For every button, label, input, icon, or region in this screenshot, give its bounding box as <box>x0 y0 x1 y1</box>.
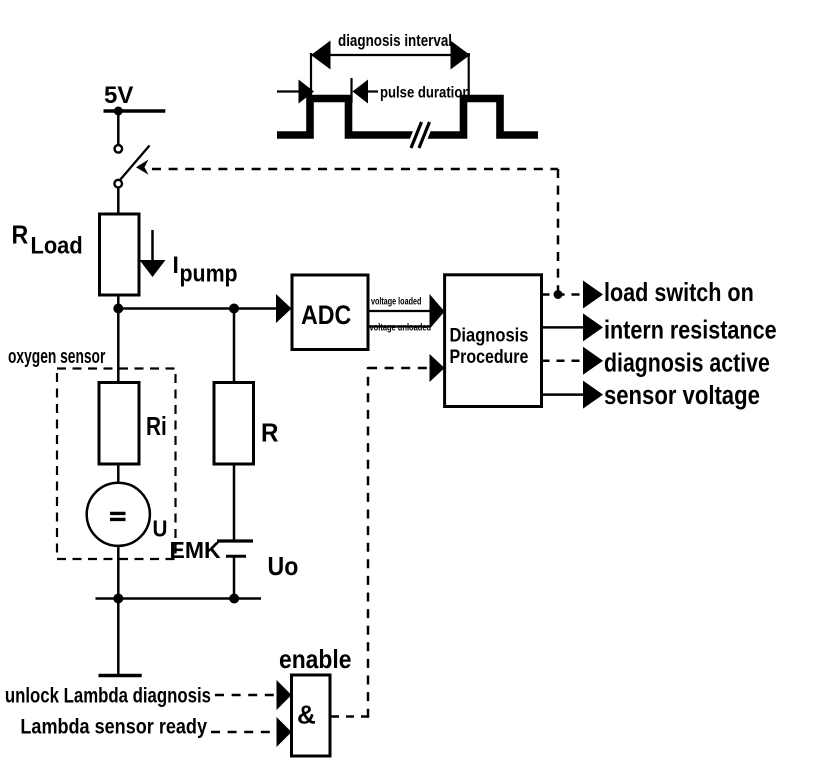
svg-text:voltage loaded: voltage loaded <box>371 295 421 306</box>
arrowhead unlock input <box>277 680 292 710</box>
dashed wire ready input <box>211 731 277 734</box>
arrowhead diagnosis active <box>583 347 603 375</box>
voltage source circle <box>87 483 150 546</box>
dashed control line vertical <box>557 169 560 295</box>
dimension extension line left <box>310 53 312 98</box>
dashed wire enable vertical <box>367 367 370 718</box>
svg-text:Ri: Ri <box>146 412 167 441</box>
svg-text:U: U <box>153 515 168 541</box>
label I_pump <box>173 251 238 286</box>
bottom node wire <box>96 597 262 600</box>
svg-text:Lambda sensor ready: Lambda sensor ready <box>20 715 207 739</box>
Diagnosis Procedure box <box>445 275 542 407</box>
falling edge extension tick <box>350 78 352 103</box>
bottom node dot right <box>229 594 239 604</box>
pulse duration right stub <box>368 90 378 92</box>
label Diagnosis Procedure <box>450 324 529 367</box>
node dot A <box>113 304 123 314</box>
ground <box>99 674 142 677</box>
diagnosis interval right arrowhead <box>451 41 471 70</box>
junction dot at 5V rail <box>114 107 123 116</box>
arrowhead ready input <box>277 717 292 747</box>
wire 5V to switch <box>117 111 120 144</box>
pulse duration left arrowhead <box>299 80 315 104</box>
svg-text:pump: pump <box>180 259 238 286</box>
svg-text:Load: Load <box>31 232 83 259</box>
arrowhead intern resistance <box>583 313 603 341</box>
svg-text:diagnosis interval: diagnosis interval <box>338 32 452 51</box>
resistor Ri <box>99 383 139 465</box>
diagnosis interval left arrowhead <box>311 41 331 70</box>
wire ADC out voltage loaded <box>368 310 430 312</box>
ADC box <box>292 275 368 350</box>
switch contact upper <box>115 145 123 153</box>
svg-text:EMK: EMK <box>170 537 222 563</box>
arrowhead enable into Diagnosis <box>430 354 445 382</box>
svg-text:&: & <box>297 700 316 730</box>
wire R_Load bottom to node <box>117 295 120 383</box>
switch blade <box>120 146 150 181</box>
svg-text:enable: enable <box>279 646 351 675</box>
wire switch to R_Load <box>117 188 120 214</box>
I_pump arrow line <box>151 230 154 262</box>
wire node B to R <box>233 309 236 383</box>
wire ADC out voltage unloaded <box>368 325 430 327</box>
svg-text:load switch on: load switch on <box>604 278 754 307</box>
svg-text:Uo: Uo <box>268 553 299 582</box>
wire node to ADC <box>118 307 276 310</box>
dashed wire diagnosis active <box>542 360 584 363</box>
dashed wire unlock input <box>215 694 277 697</box>
wire sensor voltage <box>542 393 584 396</box>
label U_EMK <box>153 515 222 563</box>
pulse duration left stub <box>277 90 299 92</box>
svg-text:oxygen sensor: oxygen sensor <box>8 344 106 367</box>
switch control arrowhead <box>136 160 149 175</box>
dashed wire enable horizontal <box>368 367 430 370</box>
dashed control line to load switch <box>152 168 558 171</box>
wire waveform trace <box>277 99 538 136</box>
wire R to capacitor <box>233 464 236 540</box>
diagnosis interval dimension line <box>311 54 470 56</box>
resistor R_Load <box>100 214 140 295</box>
I_pump arrowhead <box>140 260 166 277</box>
capacitor Uo top plate <box>217 539 253 542</box>
5V supply rail <box>104 109 166 113</box>
dashed wire enable output <box>331 715 368 718</box>
wire intern resistance <box>542 326 584 329</box>
svg-text:R: R <box>12 221 29 250</box>
wire to ground <box>117 599 120 675</box>
svg-text:I: I <box>173 251 179 278</box>
switch contact lower <box>114 180 122 188</box>
wire Ri to source <box>117 464 120 483</box>
svg-text:ADC: ADC <box>301 300 351 330</box>
junction dot load switch <box>554 290 563 299</box>
label R_Load <box>12 221 83 259</box>
arrow into ADC <box>276 294 292 323</box>
arrow ADC to Diagnosis <box>430 294 445 329</box>
svg-text:Diagnosis: Diagnosis <box>450 324 529 345</box>
node dot B <box>229 304 239 314</box>
svg-text:5V: 5V <box>104 82 133 109</box>
dashed wire load switch on <box>542 293 584 296</box>
svg-text:sensor voltage: sensor voltage <box>604 381 760 410</box>
wire source to bottom node <box>117 546 120 599</box>
arrowhead sensor voltage <box>583 381 603 409</box>
svg-text:diagnosis active: diagnosis active <box>604 348 770 378</box>
svg-text:unlock Lambda diagnosis: unlock Lambda diagnosis <box>5 685 211 708</box>
voltage source = sign <box>110 513 126 519</box>
svg-text:intern resistance: intern resistance <box>604 316 777 345</box>
svg-text:voltage unloaded: voltage unloaded <box>370 321 432 332</box>
svg-text:pulse duration: pulse duration <box>380 84 470 101</box>
oxygen sensor dashed box <box>57 369 176 560</box>
arrowhead load switch on <box>583 281 603 309</box>
resistor R <box>214 383 254 465</box>
pulse duration right arrowhead <box>353 80 369 104</box>
waveform break symbol <box>411 122 430 148</box>
svg-text:R: R <box>261 419 278 448</box>
capacitor Uo bottom plate <box>226 555 246 558</box>
svg-text:Procedure: Procedure <box>450 346 529 368</box>
wire capacitor to bottom node <box>233 556 236 598</box>
AND gate U1 <box>292 675 331 756</box>
bottom node dot left <box>113 594 123 604</box>
dimension extension line right <box>468 53 470 98</box>
